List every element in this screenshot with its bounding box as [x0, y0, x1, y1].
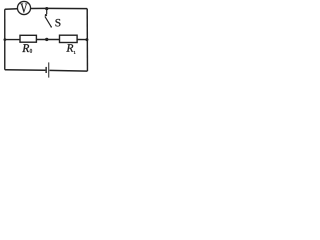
resistor R0 label letter R	[22, 44, 29, 52]
wire bottom-right segment	[50, 69, 88, 72]
wire top-middle segment from voltmeter to top-right corner	[31, 7, 88, 9]
resistor R0 label subscript 0	[30, 49, 32, 53]
wire top-left segment	[5, 8, 18, 10]
node left rail junction dot	[4, 38, 7, 41]
switch S blade	[45, 16, 51, 26]
switch S label letter S	[56, 19, 61, 26]
node right rail junction dot	[85, 38, 88, 41]
voltmeter U1 circle	[17, 1, 30, 14]
node M junction dot on middle rail (switch lower contact)	[45, 38, 48, 41]
resistor Rx label subscript x	[74, 51, 75, 54]
wire bottom-left segment	[5, 69, 46, 72]
wire middle rail between resistors	[36, 39, 59, 41]
wire middle rail left	[5, 39, 20, 41]
switch S stub wire	[46, 9, 48, 15]
switch S junction dot on top wire	[45, 7, 48, 10]
battery BT1 short thick plate (negative)	[45, 67, 47, 73]
resistor Rx box	[60, 35, 78, 42]
wire right vertical	[86, 9, 88, 72]
wire left vertical	[4, 9, 6, 70]
switch S blade end contact dot	[51, 26, 53, 28]
battery BT1 long thin plate (positive)	[48, 62, 50, 77]
voltmeter U1 letter V	[20, 4, 27, 13]
wire middle rail right	[77, 39, 87, 41]
resistor R0 box	[20, 35, 36, 42]
resistor Rx label letter R	[66, 44, 73, 51]
switch S pivot dot	[45, 14, 47, 16]
